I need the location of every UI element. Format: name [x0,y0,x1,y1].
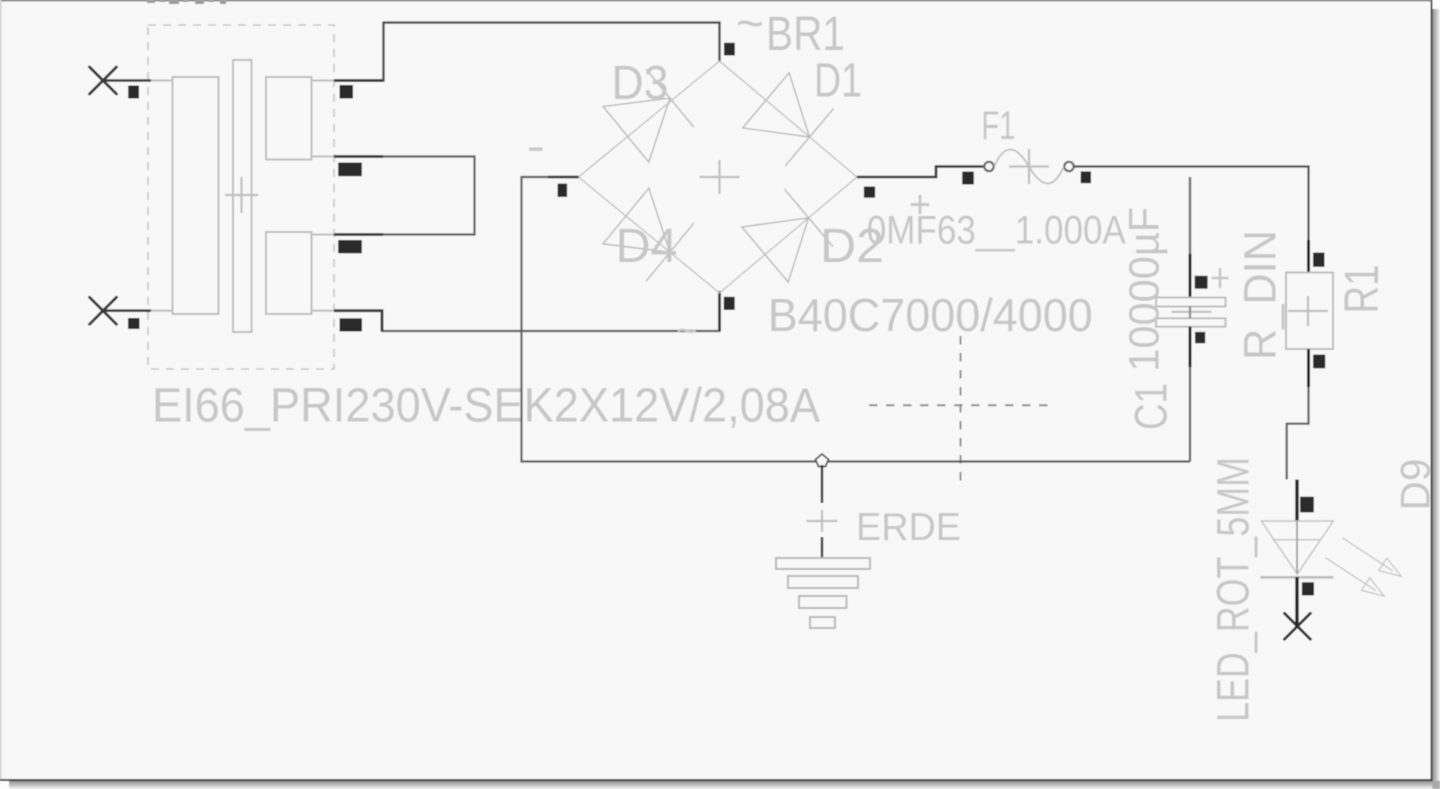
svg-text:D4: D4 [616,220,678,273]
svg-text:D1: D1 [814,55,862,108]
junction square sec pin2 [338,163,362,177]
resistor R1 body [1286,273,1333,350]
junction square R1 top [1313,253,1324,267]
svg-text:B40C7000/4000: B40C7000/4000 [768,289,1093,341]
capacitor bottom pin [1189,327,1192,367]
ground junction node [816,454,829,467]
diode D4 [603,188,694,281]
diode D2 [742,189,833,282]
fuse origin cross [1009,149,1049,184]
LED cathode bar [1260,576,1333,579]
svg-text:D9: D9 [1392,459,1439,511]
transformer TR1 dashed outline [148,25,334,369]
LED bottom pin [1295,577,1298,626]
value info dashed lines [960,336,962,482]
ground origin cross [807,510,838,532]
capacitor origin cross [1172,311,1212,313]
bridge minus mark [529,148,543,151]
junction square C1 bottom [1195,332,1205,343]
LED arrows [1325,538,1401,596]
wire sec2 bottom to bridge AC2 [334,291,720,331]
transformer secondary winding 1 [266,77,312,160]
junction square pin2 [128,318,140,329]
svg-text:~: ~ [676,310,698,351]
wire X2 to transformer [103,309,151,312]
wire fuse to R1 [1074,167,1309,241]
junction square sec pin4 [340,318,363,331]
junction square sec pin1 [340,85,354,99]
bridge origin cross [700,160,740,194]
svg-text:R1: R1 [1336,265,1389,314]
junction square R1 bottom [1313,355,1325,369]
ground bars [776,558,870,628]
wire sec1 top to bridge AC1 [334,23,720,81]
svg-text:D3: D3 [612,57,669,110]
svg-text:10000µF: 10000µF [1121,207,1169,372]
LED open end X [1284,613,1310,639]
transformer core [233,60,252,332]
terminal X1 [90,67,117,94]
R1 bottom pin [1307,349,1310,387]
bridge junction squares [724,43,735,56]
bridge BR1 diamond [579,61,858,293]
capacitor plates [1156,298,1226,307]
wire R1 to LED [1287,387,1309,480]
svg-text:ERDE: ERDE [856,506,961,549]
transformer primary winding [173,77,219,314]
diode D1 [743,73,834,166]
ground stub wire [821,465,823,503]
svg-text:EI66_PRI230V-SEK2X12V/2,08A: EI66_PRI230V-SEK2X12V/2,08A [152,380,820,433]
svg-text:0MF63__1.000A: 0MF63__1.000A [867,209,1126,253]
svg-text:BR1: BR1 [766,8,845,61]
bridge plus mark [911,195,930,214]
R1 origin cross [1288,296,1328,326]
terminal X2 [90,297,117,324]
junction square LED top [1300,497,1314,513]
clipped text fragments top edge [147,0,226,4]
svg-text:C1: C1 [1126,383,1177,430]
transformer secondary winding 2 [266,232,312,314]
wire secondary series link [334,157,475,235]
capacitor C1 top pin [1189,177,1191,254]
svg-text:R_DIN: R_DIN [1235,230,1286,360]
svg-text:LED_ROT_5MM: LED_ROT_5MM [1208,457,1259,722]
diode D3 [603,69,694,162]
R1 top pin [1307,240,1310,273]
transformer pins (light) [150,81,334,311]
wire bridge plus to fuse [857,167,984,178]
capacitor plus mark [1212,268,1229,288]
fuse F1 [984,162,993,171]
wire bridge minus to bottom rail [522,177,1191,462]
svg-text:F1: F1 [981,104,1015,148]
wire X1 to transformer [103,79,151,82]
junction square LED bottom [1302,582,1314,595]
junction square pin1 [128,86,139,99]
junction square fuse right [1081,171,1091,183]
LED top pin [1295,480,1298,522]
transformer origin cross [225,177,258,213]
svg-text:~: ~ [736,0,764,51]
LED triangle [1261,521,1333,574]
junction square C1 top [1195,276,1208,289]
junction square sec pin3 [338,240,362,253]
junction square fuse left [962,172,974,185]
